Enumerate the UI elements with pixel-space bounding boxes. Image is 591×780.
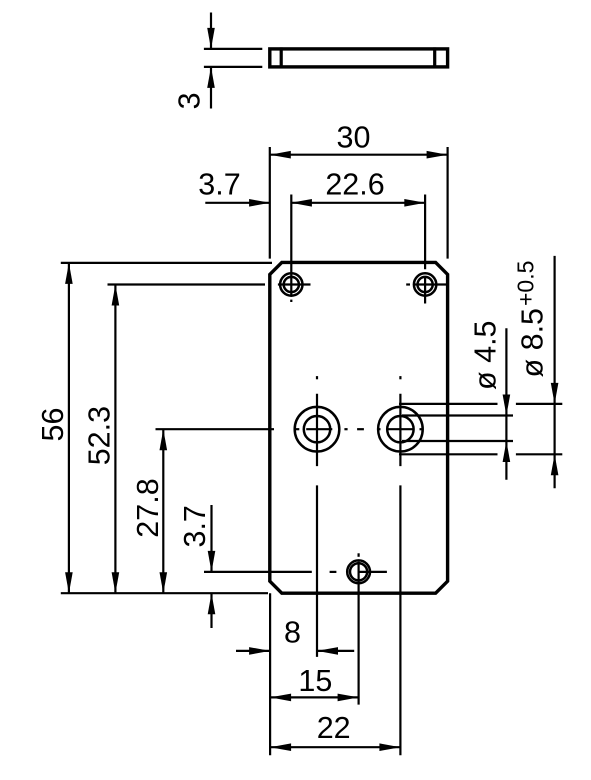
svg-text:+0.5: +0.5 bbox=[513, 261, 539, 306]
svg-text:22.6: 22.6 bbox=[325, 167, 384, 201]
svg-text:ø 4.5: ø 4.5 bbox=[469, 320, 503, 390]
svg-text:56: 56 bbox=[36, 408, 70, 442]
svg-text:22: 22 bbox=[317, 711, 351, 745]
svg-text:15: 15 bbox=[298, 664, 332, 698]
svg-text:3: 3 bbox=[172, 92, 206, 109]
svg-text:3.7: 3.7 bbox=[198, 167, 240, 201]
svg-text:52.3: 52.3 bbox=[83, 406, 117, 465]
svg-text:ø 8.5: ø 8.5 bbox=[516, 308, 550, 378]
svg-text:8: 8 bbox=[284, 616, 301, 650]
svg-text:3.7: 3.7 bbox=[178, 505, 212, 547]
svg-text:30: 30 bbox=[337, 121, 371, 155]
svg-text:27.8: 27.8 bbox=[131, 478, 165, 537]
